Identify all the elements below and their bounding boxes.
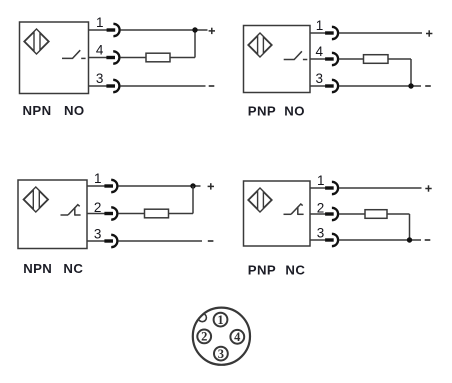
svg-text:3: 3 (316, 71, 324, 86)
- terminal (PNP NO) (425, 85, 431, 87)
svg-text:1: 1 (217, 313, 223, 327)
svg-text:1: 1 (316, 18, 324, 33)
connector pin 1 circle (214, 313, 228, 327)
junction dot (NPN NC) (190, 183, 195, 188)
wire 3 (PNP NO) (310, 85, 326, 87)
sensor optic symbol (diamond) PNP NC (248, 188, 272, 212)
svg-text:NPN: NPN (23, 103, 52, 118)
svg-text:2: 2 (201, 330, 207, 344)
caption NPN NC (23, 261, 83, 276)
caption PNP NO (248, 104, 305, 119)
svg-text:3: 3 (218, 347, 224, 361)
NO switch contact (PNP NO) (284, 51, 308, 59)
pin label 3 (PNP NO) (316, 71, 324, 86)
sensor body box (NPN NC) (18, 180, 87, 249)
wire from load to node (NPN NO) (170, 57, 195, 59)
sensor body box (PNP NO) (244, 26, 311, 93)
connector plug pin 4 (NPN NO) (106, 51, 119, 63)
pin label 2 (PNP NC) (317, 200, 325, 215)
- terminal (NPN NC) (208, 240, 214, 242)
junction dot (PNP NO) (408, 83, 413, 88)
connector plug pin 2 (NPN NC) (104, 207, 117, 219)
pin label 1 (PNP NC) (317, 173, 325, 188)
connector pin 3 circle (214, 347, 228, 361)
svg-text:NC: NC (285, 262, 305, 277)
wire 2 (PNP NC) (310, 213, 326, 215)
svg-text:NO: NO (284, 104, 305, 119)
wire 1 (PNP NO) (310, 32, 326, 34)
connector plug pin 3 (NPN NC) (104, 235, 117, 247)
wire from load to link (PNP NO) (388, 58, 411, 60)
wire 4 (PNP NO) (310, 58, 326, 60)
pin label 1 (NPN NC) (94, 171, 102, 186)
+ terminal (NPN NC) (208, 183, 214, 189)
load resistor (NPN NO) (146, 53, 170, 62)
svg-text:3: 3 (96, 71, 104, 86)
pin label 1 (NPN NO) (96, 15, 104, 30)
svg-text:4: 4 (234, 330, 241, 344)
svg-text:1: 1 (317, 173, 325, 188)
load resistor (PNP NC) (365, 210, 387, 219)
svg-text:3: 3 (94, 226, 102, 241)
NO switch contact (NPN NO) (62, 50, 86, 58)
M12 connector face circle (193, 308, 250, 365)
wire 3 run to - (PNP NC) (339, 239, 421, 241)
connector plug pin 1 (NPN NC) (104, 180, 117, 192)
- terminal (PNP NC) (425, 239, 431, 241)
pin label 4 (PNP NO) (316, 44, 324, 59)
vertical link wire (NPN NO) (194, 30, 196, 58)
caption NPN NO (23, 103, 85, 118)
- terminal (NPN NO) (209, 85, 215, 87)
svg-text:NC: NC (63, 261, 83, 276)
svg-text:4: 4 (316, 44, 324, 59)
connector plug pin 1 (PNP NO) (325, 27, 338, 39)
connector plug pin 3 (PNP NC) (325, 234, 338, 246)
wire 1 (NPN NO) (89, 29, 108, 31)
connector plug pin 2 (PNP NC) (325, 208, 338, 220)
connector pin 2 circle (197, 330, 211, 344)
wire 1 run to + (NPN NC) (118, 185, 200, 187)
+ terminal (PNP NO) (426, 30, 432, 36)
sensor optic symbol (diamond) NPN NO (24, 29, 49, 54)
wire 1 run to + (PNP NO) (339, 32, 422, 34)
connector plug pin 1 (PNP NC) (325, 182, 338, 194)
svg-text:NPN: NPN (23, 261, 52, 276)
connector plug pin 3 (NPN NO) (106, 80, 119, 92)
wire 3 (NPN NC) (87, 240, 105, 242)
sensor optic symbol (diamond) PNP NO (248, 33, 272, 57)
connector pin 4 circle (230, 330, 244, 344)
keying notch (198, 314, 206, 322)
svg-text:1: 1 (94, 171, 102, 186)
wire 2 to load (NPN NC) (118, 213, 144, 215)
wire 4 (NPN NO) (89, 57, 108, 59)
svg-text:3: 3 (317, 225, 325, 240)
wire 3 run to - (NPN NO) (120, 85, 205, 87)
wire 4 to load (NPN NO) (120, 57, 146, 59)
wire from load to node (NPN NC) (169, 213, 194, 215)
pin label 3 (PNP NC) (317, 225, 325, 240)
vertical link wire (PNP NC) (409, 214, 411, 240)
wire 3 (PNP NC) (310, 239, 326, 241)
caption PNP NC (248, 262, 306, 277)
wire 3 run to - (NPN NC) (118, 240, 202, 242)
sensor body box (NPN NO) (20, 22, 89, 94)
load resistor (NPN NC) (145, 209, 169, 218)
vertical link wire (NPN NC) (192, 186, 194, 214)
sensor body box (PNP NC) (244, 181, 311, 246)
svg-text:2: 2 (94, 200, 102, 215)
wire 3 run to - (PNP NO) (339, 85, 421, 87)
pin label 4 (NPN NO) (96, 43, 104, 58)
junction dot (NPN NO) (192, 27, 197, 32)
+ terminal (NPN NO) (209, 28, 215, 34)
NC switch contact (PNP NC) (284, 204, 304, 215)
+ terminal (PNP NC) (425, 185, 431, 191)
wire 2 to load (PNP NC) (339, 213, 365, 215)
svg-text:NO: NO (64, 103, 85, 118)
pin label 3 (NPN NC) (94, 226, 102, 241)
junction dot (PNP NC) (407, 237, 412, 242)
pin label 2 (NPN NC) (94, 200, 102, 215)
svg-text:PNP: PNP (248, 104, 276, 119)
sensor optic symbol (diamond) NPN NC (23, 187, 48, 212)
NC switch contact (NPN NC) (61, 205, 81, 216)
svg-text:4: 4 (96, 43, 104, 58)
pin label 1 (PNP NO) (316, 18, 324, 33)
wire 4 to load (PNP NO) (339, 58, 364, 60)
wire 2 (NPN NC) (87, 213, 105, 215)
wire 3 (NPN NO) (89, 85, 108, 87)
wire from load to link (PNP NC) (387, 213, 410, 215)
svg-text:1: 1 (96, 15, 104, 30)
load resistor (PNP NO) (364, 55, 389, 64)
pin label 3 (NPN NO) (96, 71, 104, 86)
wire 1 run to + (PNP NC) (339, 187, 422, 189)
wire 1 run to + (NPN NO) (120, 29, 207, 31)
connector plug pin 1 (NPN NO) (107, 24, 120, 36)
connector plug pin 3 (PNP NO) (325, 80, 338, 92)
svg-text:2: 2 (317, 200, 325, 215)
svg-text:PNP: PNP (248, 262, 276, 277)
connector plug pin 4 (PNP NO) (325, 53, 338, 65)
vertical link wire (PNP NO) (410, 59, 412, 86)
wire 1 (PNP NC) (310, 187, 326, 189)
wire 1 (NPN NC) (87, 185, 105, 187)
